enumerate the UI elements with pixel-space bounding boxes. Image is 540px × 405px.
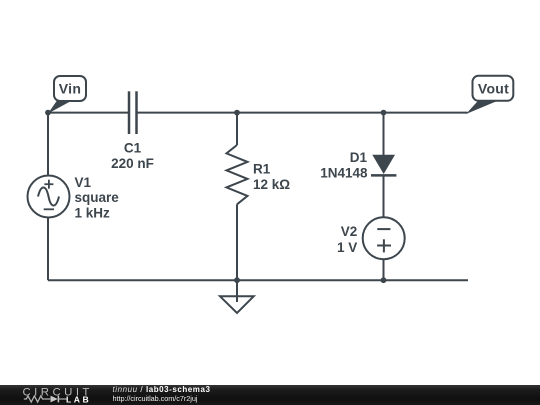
- node ground junction: [234, 277, 240, 283]
- wire bottom rail: [48, 279, 468, 281]
- svg-text:http://circuitlab.com/c7r2juj: http://circuitlab.com/c7r2juj: [113, 394, 198, 403]
- svg-text:1 V: 1 V: [337, 240, 357, 255]
- svg-text:220 nF: 220 nF: [111, 156, 154, 171]
- svg-text:1 kHz: 1 kHz: [75, 205, 111, 220]
- voltage source V1: [28, 176, 70, 218]
- svg-text:V1: V1: [75, 175, 92, 190]
- wire ground stub: [236, 280, 238, 302]
- wire D1 top: [383, 113, 385, 155]
- svg-text:R1: R1: [253, 162, 271, 177]
- svg-text:square: square: [75, 190, 120, 205]
- svg-text:tinnuu / lab03-schema3: tinnuu / lab03-schema3: [113, 385, 211, 394]
- svg-text:V2: V2: [341, 224, 358, 239]
- node R1 top: [234, 110, 240, 116]
- node flag Vin: [48, 76, 86, 114]
- wire R1 bottom: [236, 204, 238, 280]
- node Vin junction: [45, 110, 51, 116]
- node D1 top: [381, 110, 387, 116]
- logo diode symbol: [51, 396, 67, 403]
- wire top: C1 right plate to Vout tail: [137, 112, 468, 114]
- svg-text:Vout: Vout: [478, 80, 509, 96]
- node flag Vout: [466, 76, 513, 114]
- wire R1 top: [236, 113, 238, 145]
- wire D1 cathode to V2 top: [383, 175, 385, 217]
- resistor R1: [227, 145, 248, 204]
- svg-text:C1: C1: [124, 141, 142, 156]
- wire left vertical: Vin node to V1 top: [47, 113, 49, 176]
- ground: [220, 296, 254, 313]
- voltage source V2: [363, 217, 405, 259]
- wire V2 bottom to bottom rail: [383, 259, 385, 280]
- svg-text:Vin: Vin: [59, 80, 81, 96]
- logo resistor zigzag: [24, 396, 51, 402]
- wire left vertical: V1 bottom to bottom rail: [47, 218, 49, 280]
- svg-text:LAB: LAB: [66, 394, 91, 404]
- node V2 bottom: [381, 277, 387, 283]
- diode D1: [371, 155, 396, 176]
- svg-text:D1: D1: [350, 150, 368, 165]
- capacitor C1: [129, 91, 137, 134]
- wire top: Vin node to C1 left plate: [48, 112, 129, 114]
- svg-text:12 kΩ: 12 kΩ: [253, 177, 290, 192]
- svg-text:1N4148: 1N4148: [320, 166, 368, 181]
